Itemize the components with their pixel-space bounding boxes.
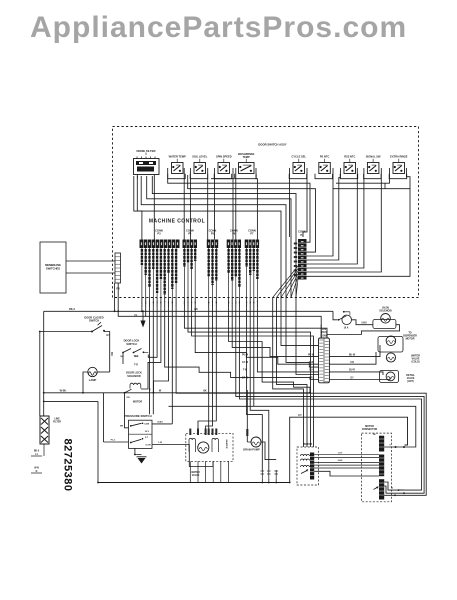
- svg-text:1M: 1M: [373, 434, 376, 436]
- wire drain pump return: [261, 442, 276, 460]
- wire pressure switch upper feed: [120, 393, 129, 428]
- svg-text:W-V: W-V: [134, 356, 139, 358]
- svg-text:6-BK: 6-BK: [144, 424, 149, 426]
- svg-text:1-W: 1-W: [158, 442, 162, 444]
- wire S4 right pin to CONN P7: [256, 168, 257, 240]
- svg-text:PS NTC: PS NTC: [320, 155, 330, 159]
- svg-text:P4: P4: [188, 232, 192, 236]
- line filter terminal stack: [40, 416, 61, 444]
- svg-text:N: N: [36, 471, 38, 473]
- svg-text:VALVE: VALVE: [412, 358, 420, 361]
- wire noise filter pin 2 to CONN P3: [153, 175, 155, 240]
- svg-text:BU-R: BU-R: [349, 370, 355, 372]
- wire drain pump feed: [246, 390, 251, 442]
- svg-text:2-BU: 2-BU: [338, 460, 343, 462]
- svg-text:MACHINE CONTROL: MACHINE CONTROL: [149, 219, 205, 225]
- svg-text:SOIL LEVEL: SOIL LEVEL: [192, 155, 208, 159]
- svg-text:16 A: 16 A: [344, 327, 349, 330]
- switch S7: [340, 155, 358, 179]
- water valve assembly: [186, 433, 233, 477]
- connector CONN P7: [245, 228, 259, 248]
- svg-text:2-T: 2-T: [145, 437, 149, 439]
- svg-text:SIGNAL SW: SIGNAL SW: [366, 155, 381, 159]
- noise filter block FB1: [134, 149, 160, 175]
- wire lamp branch rail: [44, 400, 98, 402]
- svg-text:PC-1: PC-1: [111, 440, 117, 442]
- wire L-N bottom to heater: [329, 377, 390, 380]
- svg-text:LAMP: LAMP: [89, 378, 97, 382]
- wire line rail L1 (x=43.7): [43, 311, 45, 416]
- svg-text:2: 2: [268, 480, 270, 482]
- svg-text:SWITCHES: SWITCHES: [46, 267, 60, 271]
- heater thermistor: [380, 371, 416, 384]
- svg-text:(HOT): (HOT): [407, 381, 414, 383]
- svg-text:1-GY: 1-GY: [338, 452, 343, 454]
- wire riser to bottom bus: [97, 401, 99, 482]
- valve assembly feed wire labels: [189, 429, 217, 436]
- pressure switch: [124, 414, 152, 448]
- wire S1 right pin to CONN P4: [183, 168, 185, 240]
- svg-text:W-R: W-R: [309, 362, 314, 364]
- svg-text:GY-W: GY-W: [242, 362, 249, 364]
- wire P8 pin to neutral bus: [114, 283, 116, 311]
- svg-text:MEMBRANE: MEMBRANE: [45, 263, 61, 267]
- terminal N label: [31, 468, 42, 474]
- svg-text:ON: ON: [126, 397, 130, 399]
- wire motor connector pin to loop: [384, 445, 405, 449]
- svg-text:GY: GY: [350, 377, 354, 379]
- svg-text:16-V: 16-V: [145, 431, 150, 433]
- water valve solenoid: [386, 353, 420, 364]
- svg-text:2: 2: [262, 480, 264, 482]
- wire door switch to lamp: [104, 332, 110, 373]
- svg-text:J2: J2: [391, 488, 394, 490]
- ground chassis: [134, 448, 147, 463]
- svg-text:MOTOR: MOTOR: [406, 338, 415, 341]
- svg-text:BK: BK: [203, 390, 207, 392]
- harness wire bus: switch row staircase: [134, 168, 316, 298]
- svg-text:MOTOR: MOTOR: [133, 400, 142, 403]
- wire P8 pin 2 drop: [118, 283, 146, 316]
- svg-text:HEATER: HEATER: [225, 440, 228, 449]
- svg-text:W: W: [159, 389, 162, 392]
- door closed switch: [40, 315, 110, 337]
- connector CONN P6: [227, 228, 241, 248]
- svg-text:BU: BU: [110, 352, 113, 356]
- wire membrane to P8 upper: [66, 260, 115, 262]
- svg-text:OR-W: OR-W: [242, 377, 249, 379]
- wire S3 right pin to CONN P6: [232, 168, 234, 240]
- svg-text:PRESSURE SWITCH: PRESSURE SWITCH: [124, 414, 151, 418]
- drain pump: [243, 437, 261, 452]
- switch S6: [315, 155, 333, 179]
- svg-text:DOOR SWITCH ASSY: DOOR SWITCH ASSY: [258, 142, 287, 146]
- svg-text:A-BU: A-BU: [157, 421, 163, 424]
- wire L-N to thermistor: [329, 372, 383, 375]
- terminal L1 label: [31, 444, 44, 456]
- wire neutral to L-N connector: [320, 325, 322, 338]
- svg-text:DRAIN PUMP: DRAIN PUMP: [243, 448, 260, 452]
- machine control dashed enclosure: [113, 127, 419, 298]
- wire line rail L2 (x=39.8): [39, 332, 41, 417]
- svg-text:BK-2: BK-2: [69, 308, 75, 311]
- svg-text:P3: P3: [157, 232, 161, 236]
- svg-text:L1: L1: [35, 454, 38, 456]
- svg-text:8-T: 8-T: [298, 415, 302, 417]
- door lock switch: [120, 339, 148, 358]
- wire S5 right pin to CONN P1 top: [303, 168, 307, 237]
- harness wire bus: right switch group to CONN P1: [307, 168, 411, 276]
- wire valve assembly drops: [190, 461, 228, 482]
- connector CONN P1: [298, 230, 307, 280]
- svg-text:LINE: LINE: [54, 419, 60, 421]
- wire bus: machine control outputs crossing harness boundary: [142, 248, 258, 298]
- console lamp: [88, 367, 97, 382]
- wire bus motor to motor connector: [314, 452, 379, 476]
- junction dots: [39, 310, 311, 483]
- wire motor connector bottom pins: [384, 482, 407, 496]
- svg-text:(COLD): (COLD): [411, 362, 419, 364]
- svg-text:82725380: 82725380: [62, 439, 74, 492]
- svg-text:NOISE FILTER: NOISE FILTER: [136, 149, 155, 153]
- svg-text:BK: BK: [194, 308, 198, 311]
- svg-text:SPIN SPEED: SPIN SPEED: [216, 155, 232, 159]
- svg-text:8-OR: 8-OR: [146, 445, 151, 447]
- soil level switch S2: [190, 155, 208, 179]
- svg-text:PU-W: PU-W: [242, 355, 249, 357]
- wire pressure switch lower feed: [104, 393, 129, 442]
- aux solenoid: [373, 306, 396, 328]
- wire S2 right pin to CONN P5: [207, 168, 209, 240]
- svg-text:CONNECTOR: CONNECTOR: [362, 428, 378, 431]
- svg-text:V-R: V-R: [350, 362, 354, 364]
- wire solenoid contact: [124, 389, 132, 399]
- svg-text:MOTOR: MOTOR: [303, 443, 312, 446]
- svg-text:SWITCH: SWITCH: [89, 319, 99, 323]
- svg-text:T-R: T-R: [134, 365, 138, 367]
- wire L-N to dispenser motor: [329, 345, 380, 357]
- svg-text:WATER TEMP: WATER TEMP: [169, 155, 186, 159]
- wire grid labels: [134, 355, 356, 393]
- wire pressure switch exit upper: [152, 421, 172, 424]
- connector P8 ribbon: [115, 253, 121, 291]
- svg-text:TEMP: TEMP: [243, 155, 250, 159]
- spin speed switch S3: [214, 155, 232, 179]
- wire hatch bundle below CONN P1: [273, 266, 298, 298]
- svg-text:FL: FL: [134, 314, 138, 317]
- wire S5 left pin to CONN P1 top: [289, 168, 291, 237]
- wire name labels under connector strips: [142, 249, 258, 295]
- pin numbers at harness boundary: [141, 301, 259, 307]
- svg-text:BK-5: BK-5: [34, 451, 40, 453]
- wire noise filter pin 1 to CONN P3: [137, 175, 142, 240]
- wire lamp left lead: [83, 372, 88, 393]
- svg-text:SOLENOID: SOLENOID: [379, 309, 392, 312]
- wire pressure switch out: [152, 442, 213, 466]
- membrane switch console: [40, 242, 66, 293]
- svg-text:CONN: CONN: [320, 334, 327, 337]
- wire L-N to water valve: [329, 352, 376, 364]
- svg-text:P7: P7: [250, 232, 254, 236]
- wire bottom neutral bus: [98, 415, 408, 483]
- wire S4 left pin to CONN P6: [235, 168, 237, 240]
- wire door lock switch drop: [122, 353, 124, 365]
- svg-text:FILTER: FILTER: [53, 422, 61, 424]
- svg-text:SWITCH: SWITCH: [126, 342, 136, 346]
- svg-text:P6: P6: [232, 232, 236, 236]
- CONN P1 pin wire labels: [294, 243, 297, 277]
- connector CONN P5: [207, 228, 218, 248]
- wire lamp return bus: [44, 389, 310, 392]
- svg-text:W-N: W-N: [34, 468, 39, 470]
- svg-text:P5: P5: [211, 232, 215, 236]
- door lock solenoid: [126, 371, 142, 389]
- svg-text:AppliancePartsPros.com: AppliancePartsPros.com: [30, 11, 407, 44]
- wash-rinse temp switch S4: [235, 152, 257, 179]
- splice terminals to bottom bus: [261, 470, 279, 483]
- wire S2 left pin to CONN P4: [189, 168, 191, 240]
- wire neutral bus BK: [44, 308, 333, 311]
- svg-text:BU: BU: [309, 370, 313, 372]
- svg-text:5-BU: 5-BU: [361, 323, 367, 325]
- wire thermal to aux solenoid: [352, 320, 373, 325]
- wire bus: central harness lattice: [141, 298, 426, 496]
- svg-text:T-W: T-W: [243, 370, 248, 372]
- neutral feed arrow: [134, 311, 145, 327]
- svg-text:W-BU: W-BU: [60, 389, 67, 392]
- motor M1: [297, 443, 319, 485]
- door interlock thermal switch: [333, 311, 352, 330]
- svg-text:V: V: [149, 390, 151, 392]
- L-N distribution connector: [319, 328, 330, 383]
- signal switch S8: [364, 155, 382, 179]
- water temp switch S1: [168, 155, 186, 179]
- wire lamp right lead: [97, 371, 110, 373]
- connector CONN P3: [140, 228, 180, 248]
- motor connector: [362, 425, 392, 502]
- svg-text:P1: P1: [300, 233, 304, 237]
- dispenser motor M2: [378, 331, 417, 352]
- svg-text:SOLENOID: SOLENOID: [127, 374, 141, 378]
- svg-text:CYCLE SEL: CYCLE SEL: [292, 155, 307, 159]
- connector CONN P4: [183, 228, 198, 248]
- svg-text:OR: OR: [309, 377, 313, 379]
- cycle select switch S5: [289, 155, 307, 179]
- svg-text:RS3 NTC: RS3 NTC: [344, 155, 355, 159]
- wire S3 left pin to CONN P5: [214, 168, 216, 240]
- svg-text:NR: NR: [120, 426, 124, 428]
- svg-text:9: 9: [389, 445, 391, 447]
- svg-text:PU-W: PU-W: [308, 355, 315, 357]
- wire aux return: [327, 325, 400, 338]
- wire motor connector upper loop: [289, 416, 291, 418]
- extra rinse switch S9: [389, 155, 408, 179]
- svg-text:EXTRA RINSE: EXTRA RINSE: [390, 155, 408, 159]
- wire membrane to P8 lower: [66, 272, 115, 274]
- svg-text:VALVE: VALVE: [407, 377, 415, 380]
- svg-text:VALVE: VALVE: [192, 474, 200, 477]
- svg-text:2: 2: [276, 480, 278, 482]
